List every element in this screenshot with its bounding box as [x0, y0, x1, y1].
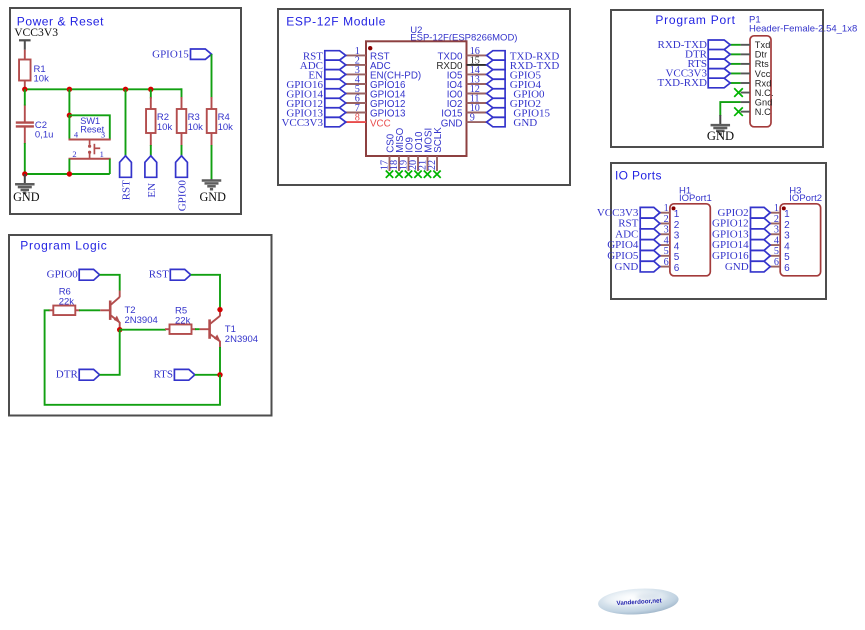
label DTR flag	[685, 49, 730, 61]
resistor R3	[177, 97, 203, 146]
pin 1 H1	[660, 203, 680, 220]
svg-text:2N3904: 2N3904	[125, 315, 158, 326]
svg-text:2: 2	[784, 220, 790, 231]
svg-text:RST: RST	[149, 269, 169, 281]
node junction rail-R1	[22, 87, 27, 92]
svg-text:VCC3V3: VCC3V3	[14, 26, 58, 39]
svg-text:1: 1	[664, 203, 669, 214]
svg-text:8: 8	[355, 113, 360, 124]
pin 2 H3	[770, 214, 790, 231]
svg-text:6: 6	[774, 257, 779, 268]
svg-text:GPIO15: GPIO15	[152, 49, 189, 61]
node junction rail-R2	[148, 87, 153, 92]
svg-text:0,1u: 0,1u	[35, 130, 54, 141]
svg-text:6: 6	[664, 257, 669, 268]
wire main power rail	[25, 88, 182, 90]
pin 3 U2 EN(CH-PD)	[346, 65, 421, 82]
svg-text:Program Logic: Program Logic	[20, 239, 107, 253]
svg-text:Gnd: Gnd	[755, 97, 773, 107]
wire DTR to P1	[730, 53, 740, 55]
svg-text:RTS: RTS	[153, 369, 173, 381]
connector H3 IOPort2	[780, 186, 822, 276]
svg-text:GPIO0: GPIO0	[177, 180, 189, 212]
pin 19 U2 IO9	[399, 137, 416, 171]
section box IO Ports	[611, 163, 826, 299]
no-connect X pin 17	[386, 171, 393, 178]
svg-text:N.C: N.C	[755, 107, 771, 117]
pin 7 U2 GPIO13	[346, 103, 406, 120]
pin 9 U2 GND	[441, 113, 487, 130]
svg-text:DTR: DTR	[56, 369, 79, 381]
svg-text:4: 4	[674, 241, 680, 252]
resistor R5	[165, 306, 196, 334]
svg-text:Rts: Rts	[755, 59, 769, 69]
svg-text:3: 3	[664, 225, 669, 236]
pin 13 U2 IO4	[447, 74, 487, 91]
svg-text:GND: GND	[725, 261, 749, 273]
wire T1 emitter to RTS	[219, 347, 221, 375]
pin 16 U2 TXD0	[437, 46, 486, 63]
wire bottom gnd rail	[25, 173, 110, 175]
svg-text:22k: 22k	[175, 316, 191, 327]
transistor T1 2N3904	[200, 310, 258, 348]
svg-text:GND: GND	[199, 190, 226, 204]
node junction rail-RST	[123, 87, 128, 92]
svg-text:VCC3V3: VCC3V3	[281, 117, 323, 129]
pin 4 P1 Vcc	[741, 69, 771, 79]
label RXD-TXD flag right pin 15	[487, 60, 560, 72]
svg-text:GND: GND	[513, 117, 537, 129]
wire GPIO0 branch	[181, 145, 183, 156]
pin 5 H3	[770, 246, 790, 263]
label GPIO15 flag right pin 10	[487, 108, 551, 120]
svg-text:TXD-RXD: TXD-RXD	[658, 77, 708, 89]
label ADC flag left pin 2	[300, 60, 346, 72]
no-connect X pin 18	[395, 171, 402, 178]
pin 4 U2 GPIO16	[346, 74, 406, 91]
node junction gnd-SW1	[67, 171, 72, 176]
label GPIO0 flag right pin 12	[487, 89, 545, 101]
label DTR flag	[56, 369, 100, 381]
transistor T2 2N3904	[100, 291, 158, 330]
pin 5 H1	[660, 246, 680, 263]
pin-1 marker U2	[368, 46, 372, 50]
svg-text:4: 4	[664, 235, 669, 246]
ground GND program port	[707, 115, 734, 143]
wire R6 to T2 base	[79, 309, 100, 311]
power flag VCC3V3	[14, 26, 58, 50]
node junction T2 emitter	[117, 327, 122, 332]
node junction gnd-C2	[22, 171, 27, 176]
svg-text:RST: RST	[121, 180, 133, 200]
svg-text:2: 2	[774, 214, 779, 225]
resistor R2	[146, 89, 172, 146]
svg-text:IOPort2: IOPort2	[789, 193, 822, 204]
pin 4 H3	[770, 235, 790, 252]
pin 1 H3	[770, 203, 790, 220]
svg-text:2: 2	[664, 214, 669, 225]
label RTS flag	[687, 58, 730, 70]
label GND flag right pin 9	[487, 117, 538, 129]
no-connect X pin 21	[424, 171, 431, 178]
svg-text:3: 3	[101, 130, 105, 140]
label GPIO0 flag	[47, 269, 100, 281]
label GPIO12 flag left pin 6	[286, 98, 345, 110]
section box Power & Reset	[10, 8, 241, 214]
wire RST branch	[125, 89, 127, 156]
pin 6 P1 N.C.	[741, 88, 774, 98]
svg-text:1: 1	[774, 203, 779, 214]
svg-text:IOPort1: IOPort1	[679, 193, 712, 204]
pin 1 P1 Txd	[741, 40, 771, 50]
wire RTS to T1 emitter	[195, 374, 220, 376]
label VCC3V3 flag	[665, 68, 730, 80]
svg-text:5: 5	[664, 246, 669, 257]
pin 8 U2 VCC	[346, 113, 391, 130]
svg-text:5: 5	[774, 246, 779, 257]
node junction rail-SW1	[67, 87, 72, 92]
svg-text:6: 6	[784, 263, 790, 274]
resistor R1	[19, 50, 49, 90]
label GPIO5 flag right pin 14	[487, 69, 542, 81]
svg-text:10k: 10k	[188, 122, 204, 133]
section box Program Port	[611, 10, 823, 147]
node junction RTS T1 emitter	[217, 372, 222, 377]
pin 10 U2 IO15	[441, 103, 486, 120]
label GPIO16 flag left pin 4	[286, 79, 345, 91]
svg-text:10k: 10k	[157, 122, 173, 133]
pin 4 H1	[660, 235, 680, 252]
label GPIO14 flag left pin 5	[286, 89, 345, 101]
capacitor C2	[16, 105, 54, 144]
wire RTS to P1	[730, 63, 740, 65]
label RST flag H1 pin 2	[618, 218, 660, 230]
svg-text:N.C.: N.C.	[755, 88, 774, 98]
no-connect X pin 19	[405, 171, 412, 178]
pin 3 P1 Rts	[741, 59, 770, 69]
svg-text:5: 5	[784, 252, 790, 263]
svg-text:3: 3	[784, 231, 790, 242]
label VCC3V3 flag left pin 8	[281, 117, 345, 129]
wire R5 to T1 base	[195, 328, 200, 330]
label GPIO12 flag H3 pin 2	[712, 218, 770, 230]
label GPIO15 flag	[152, 49, 211, 61]
label EN flag left pin 3	[308, 69, 345, 81]
pin 1 U2 RST	[346, 46, 390, 63]
pin 2 H1	[660, 214, 680, 231]
wire DTR to T2 emitter	[100, 330, 120, 375]
svg-text:GND: GND	[615, 261, 639, 273]
svg-text:Program Port: Program Port	[655, 13, 735, 27]
pin 22 U2 SCLK	[427, 127, 444, 171]
svg-text:22k: 22k	[59, 297, 75, 308]
ground GND left	[13, 174, 40, 204]
wire C2 to gnd rail	[24, 143, 26, 174]
svg-text:GPIO0: GPIO0	[47, 269, 79, 281]
pin 21 U2 MOSI	[418, 128, 435, 171]
svg-text:4: 4	[74, 130, 79, 140]
svg-text:10k: 10k	[218, 122, 234, 133]
svg-text:1: 1	[674, 209, 680, 220]
wire rail to R3	[181, 88, 183, 98]
pin 20 U2 IO10	[408, 131, 425, 171]
svg-text:ESP-12F Module: ESP-12F Module	[286, 14, 386, 28]
svg-text:22: 22	[427, 160, 438, 170]
svg-text:Rxd: Rxd	[755, 78, 772, 88]
pin 6 U2 GPIO12	[346, 93, 406, 110]
pin 3 H3	[770, 225, 790, 242]
svg-text:2: 2	[72, 149, 76, 159]
wire Gnd to ground	[720, 102, 740, 116]
label GPIO2 flag right pin 11	[487, 98, 541, 110]
wire RXD-TXD to P1	[730, 44, 740, 46]
svg-text:4: 4	[784, 241, 790, 252]
svg-text:10k: 10k	[34, 74, 50, 85]
pin 3 H1	[660, 225, 680, 242]
wire GPIO15 to R4	[211, 54, 213, 98]
op-amp U2 body	[366, 41, 467, 156]
wire EN branch	[150, 145, 152, 156]
section box Program Logic	[9, 235, 272, 416]
svg-text:GND: GND	[707, 129, 734, 143]
svg-text:1: 1	[100, 149, 104, 159]
svg-text:5: 5	[674, 252, 680, 263]
label GPIO5 flag H1 pin 5	[607, 250, 660, 262]
pin 15 U2 RXD0	[436, 55, 486, 72]
label RXD-TXD flag	[658, 39, 731, 51]
svg-text:1: 1	[784, 209, 790, 220]
no-connect X pin 22	[433, 171, 440, 178]
pin 6 H3	[770, 257, 790, 274]
svg-text:3: 3	[774, 225, 779, 236]
wire T2 emitter to R5	[120, 329, 166, 331]
label TXD-RXD flag	[658, 77, 731, 89]
svg-text:9: 9	[470, 113, 475, 124]
svg-text:3: 3	[674, 231, 680, 242]
pin 2 P1 Dtr	[741, 50, 768, 60]
label RST flag left pin 1	[303, 50, 346, 62]
pin 12 U2 IO0	[447, 84, 487, 101]
wire R4 to gnd	[211, 145, 213, 181]
svg-text:IO Ports: IO Ports	[615, 168, 662, 182]
label TXD-RXD flag right pin 16	[487, 50, 560, 62]
label EN flag	[145, 156, 158, 198]
label GPIO4 flag H1 pin 4	[607, 239, 660, 251]
pin 17 U2 CS0	[380, 133, 397, 171]
svg-text:4: 4	[774, 235, 779, 246]
label GPIO2 flag H3 pin 1	[718, 207, 771, 219]
svg-text:VCC: VCC	[370, 118, 391, 129]
svg-text:GND: GND	[13, 190, 40, 204]
label GND flag H1 pin 6	[615, 261, 660, 273]
pin 5 P1 Rxd	[741, 78, 772, 88]
label GPIO14 flag H3 pin 4	[712, 239, 770, 251]
no-connect X pin 8 P1	[734, 107, 743, 116]
label GPIO4 flag right pin 13	[487, 79, 542, 91]
svg-text:2N3904: 2N3904	[225, 334, 258, 345]
switch SW1 Reset	[67, 89, 111, 174]
label GPIO16 flag H3 pin 5	[712, 250, 770, 262]
label RTS flag	[153, 369, 194, 381]
svg-text:Header-Female-2.54_1x8: Header-Female-2.54_1x8	[749, 23, 857, 34]
wire TXD-RXD to P1	[730, 82, 740, 84]
wire GPIO0 to T2 collector	[100, 275, 120, 291]
wire feedback rail to R6	[45, 310, 220, 405]
section box ESP-12F Module	[278, 9, 570, 185]
pin 14 U2 IO5	[447, 65, 487, 82]
resistor R4	[207, 97, 233, 146]
pin 2 U2 ADC	[346, 55, 391, 72]
label RST flag	[149, 269, 191, 281]
label RST flag	[120, 156, 133, 200]
label ADC flag H1 pin 3	[615, 228, 660, 240]
pin 8 P1 N.C	[741, 107, 772, 117]
pin 5 U2 GPIO14	[346, 84, 406, 101]
no-connect X pin 6 P1	[734, 88, 743, 97]
svg-text:Txd: Txd	[755, 40, 771, 50]
pin 11 U2 IO2	[447, 93, 487, 110]
connector P1 body	[750, 36, 771, 127]
label GPIO13 flag H3 pin 3	[712, 228, 770, 240]
svg-text:2: 2	[674, 220, 680, 231]
wire VCC3V3 to P1	[730, 72, 740, 74]
label GND flag H3 pin 6	[725, 261, 770, 273]
svg-text:Vcc: Vcc	[755, 69, 771, 79]
label GPIO13 flag left pin 7	[286, 108, 345, 120]
svg-text:Dtr: Dtr	[755, 50, 768, 60]
pin 7 P1 Gnd	[741, 97, 773, 107]
wire C2 top lead	[24, 89, 26, 105]
connector H1 IOPort1	[670, 186, 712, 276]
wire RST to T1 collector	[191, 275, 220, 310]
label VCC3V3 flag H1 pin 1	[597, 207, 660, 219]
logo Vanderdoor.net	[597, 586, 679, 616]
svg-text:6: 6	[674, 263, 680, 274]
pin 6 H1	[660, 257, 680, 274]
resistor R6	[49, 287, 80, 316]
pin 18 U2 MISO	[389, 127, 406, 171]
no-connect X pin 20	[414, 171, 421, 178]
ground GND right	[199, 179, 226, 204]
svg-text:EN: EN	[146, 183, 158, 198]
node junction T1 collector RST	[217, 307, 222, 312]
svg-text:SCLK: SCLK	[433, 127, 444, 153]
label GPIO0 flag	[176, 156, 189, 211]
